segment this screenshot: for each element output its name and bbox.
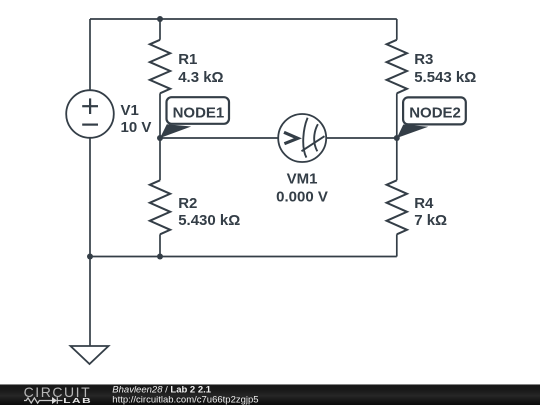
svg-text:V1: V1	[121, 102, 139, 119]
svg-text:NODE2: NODE2	[409, 105, 461, 122]
svg-text:10 V: 10 V	[121, 119, 152, 136]
svg-text:7 kΩ: 7 kΩ	[414, 212, 447, 229]
svg-text:5.543 kΩ: 5.543 kΩ	[414, 69, 476, 86]
svg-text:5.430 kΩ: 5.430 kΩ	[178, 212, 240, 229]
svg-text:0.000 V: 0.000 V	[276, 188, 328, 205]
svg-text:R2: R2	[178, 195, 197, 212]
svg-text:R4: R4	[414, 195, 434, 212]
svg-text:LAB: LAB	[63, 397, 92, 405]
svg-text:NODE1: NODE1	[173, 104, 225, 121]
svg-text:http://circuitlab.com/c7u66tp2: http://circuitlab.com/c7u66tp2zgjp5	[112, 394, 258, 405]
svg-text:R3: R3	[414, 51, 433, 68]
svg-text:4.3 kΩ: 4.3 kΩ	[178, 69, 223, 86]
svg-text:R1: R1	[178, 51, 197, 68]
svg-text:VM1: VM1	[287, 170, 318, 187]
